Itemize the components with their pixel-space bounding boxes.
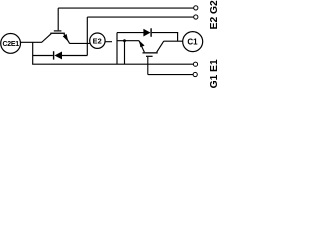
wire Q1 emitter (117, 40, 139, 42)
terminal E2 (90, 33, 105, 48)
wire C2E1 to Q2 collector (21, 41, 42, 43)
gate rail G2 (58, 7, 194, 9)
bottom rail C2E1 to E1 (32, 63, 193, 65)
gate lead Q1 (147, 57, 149, 75)
IGBT Q2 (42, 8, 70, 43)
svg-text:G1 E1: G1 E1 (209, 59, 220, 88)
diode D1 on top wire (117, 28, 178, 41)
wire Q1 collector to C1 (164, 40, 183, 42)
svg-text:C2E1: C2E1 (3, 41, 20, 48)
terminal C2E1 (1, 34, 21, 54)
aux emitter rail E2 (87, 16, 193, 18)
stub E2 right (105, 41, 112, 43)
svg-text:C1: C1 (187, 38, 198, 47)
diode D2 (33, 51, 88, 59)
aux terminal E1 (193, 62, 197, 66)
aux terminal E2 (194, 15, 198, 19)
wire emitter down to rail (124, 41, 126, 64)
terminal C1 (183, 32, 203, 52)
wire D1 anode vertical (116, 33, 118, 65)
IGBT Q1 (139, 41, 164, 57)
svg-text:E2 G2: E2 G2 (209, 0, 220, 29)
wire Q2 emitter to E2 (70, 42, 91, 44)
junction dot (123, 39, 126, 42)
svg-text:E2: E2 (93, 37, 102, 46)
aux terminal G2 (194, 6, 198, 10)
wire C2E1 node down (32, 42, 34, 64)
aux terminal G1 (193, 72, 197, 76)
wire E2 aux down to emitter and D2 anode (86, 17, 88, 55)
